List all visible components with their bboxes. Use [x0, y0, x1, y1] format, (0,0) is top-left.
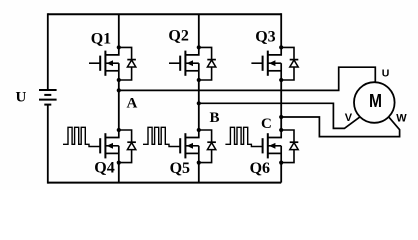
leg 1 vertical segments: [118, 14, 120, 48]
bottom rail: [48, 182, 281, 184]
node C wire to motor W: [281, 117, 399, 137]
svg-text:V: V: [345, 112, 353, 124]
node B wire to motor V: [199, 103, 360, 128]
wire top: [47, 13, 49, 89]
node A: [117, 88, 121, 92]
plate long 1: [39, 89, 57, 91]
transistor Q4 with PWM gate: [63, 127, 136, 164]
plate long 2: [39, 99, 57, 101]
plate short 1: [44, 94, 51, 96]
svg-text:B: B: [210, 110, 220, 126]
svg-text:C: C: [261, 116, 272, 132]
plate short 2: [44, 104, 51, 106]
top rail: [48, 13, 281, 15]
svg-text:U: U: [16, 89, 27, 105]
svg-text:Q4: Q4: [94, 159, 114, 176]
node B: [197, 101, 201, 105]
transistor Q6 with PWM gate: [225, 127, 298, 164]
battery U: [39, 13, 57, 183]
leg 3 vertical segments: [280, 13, 282, 48]
svg-text:Q6: Q6: [250, 160, 270, 177]
node C: [279, 115, 283, 119]
transistor Q1: [89, 45, 136, 82]
svg-text:Q1: Q1: [91, 30, 111, 47]
svg-text:M: M: [369, 91, 382, 111]
wire bottom: [47, 105, 49, 184]
transistor Q3: [251, 45, 298, 82]
node A wire to motor U: [119, 67, 376, 90]
transistor Q2: [169, 45, 216, 82]
svg-text:Q5: Q5: [170, 160, 190, 177]
leg 2 vertical segments: [198, 14, 200, 48]
svg-text:Q2: Q2: [168, 27, 188, 44]
motor M: [354, 82, 395, 123]
svg-text:W: W: [396, 112, 407, 124]
svg-text:U: U: [382, 67, 390, 79]
svg-text:A: A: [127, 96, 138, 112]
transistor Q5 with PWM gate: [143, 127, 216, 164]
svg-text:Q3: Q3: [255, 29, 275, 46]
